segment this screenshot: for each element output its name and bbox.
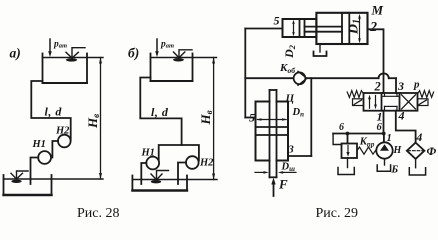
valve R right pilot box [418, 99, 429, 106]
pump H1 (fig b) [146, 157, 159, 170]
node 6 junction dot left [346, 132, 350, 136]
svg-text:Н2: Н2 [199, 158, 214, 169]
svg-text:Нв: Нв [198, 110, 214, 125]
svg-text:5: 5 [274, 14, 280, 28]
piston of small bore [300, 19, 305, 37]
drain tank symbol of cylinder M [314, 52, 327, 57]
svg-text:б): б) [128, 46, 139, 61]
valve R right spring [418, 91, 434, 98]
valve R left position arrows [368, 95, 377, 110]
tank symbol under filter [409, 168, 425, 175]
pump N [376, 142, 392, 158]
svg-text:3: 3 [287, 144, 294, 156]
drain of cylinder M [319, 44, 321, 52]
upper tank (fig b) [151, 54, 217, 82]
svg-text:2: 2 [374, 80, 381, 94]
wire valve port 1 down to node [383, 111, 385, 134]
wire Kob line from trunk to check valve [245, 77, 293, 79]
check valve Kob [294, 71, 307, 85]
piston of cylinder C [256, 127, 289, 135]
svg-text:М: М [371, 3, 384, 18]
valve R right position crossed arrows [402, 95, 416, 109]
relief valve Kpr connection [347, 134, 349, 144]
arrow F (force) [271, 178, 275, 196]
pump manifold (fig b) [159, 145, 199, 161]
pump H1 (fig a) [38, 151, 51, 164]
lower tank (fig a) [4, 175, 104, 195]
svg-text:Б: Б [391, 165, 399, 176]
svg-text:3: 3 [397, 79, 404, 93]
relief valve Kpr arrow [346, 146, 349, 157]
filter drain stub [415, 159, 417, 168]
wire pump suction [383, 134, 385, 143]
pipe H2 to H1 (fig a) [52, 141, 58, 158]
arrow D2 (bore small) [292, 20, 294, 37]
svg-text:Рис. 28: Рис. 28 [77, 206, 120, 219]
pipe upper tank to pump manifold (fig b) [140, 78, 181, 146]
arrow p_at (fig b) [155, 39, 159, 57]
wire Kob to valve port 3 with bridge over port-2 wire [305, 73, 396, 93]
svg-text:Н1: Н1 [32, 139, 46, 150]
wire port 3 of cylinder C [288, 155, 311, 157]
arrows Dsh (rod diameter) [255, 171, 296, 174]
svg-text:Нв: Нв [85, 114, 101, 129]
pump H2 (fig b) [186, 156, 199, 169]
upper tank (fig a) [43, 54, 104, 84]
valve R centre position symbol [382, 93, 399, 111]
rod of cylinder C [270, 90, 277, 177]
rod of cylinder M [305, 27, 343, 32]
svg-text:2: 2 [369, 19, 377, 34]
svg-text:рат: рат [160, 40, 174, 50]
piston of big bore [342, 13, 349, 44]
level/breather mark upper tank (fig a) [66, 48, 85, 62]
arrow D1 (bore big) [358, 14, 361, 43]
svg-text:Н: Н [393, 145, 403, 156]
wire right trunk (to cylinder C port 3) [310, 78, 312, 156]
svg-text:р: р [413, 79, 420, 91]
cylinder M big bore body [316, 13, 367, 44]
pipe upper tank to pump H2 (fig a) [31, 81, 70, 141]
level/breather mark upper tank (fig b) [173, 50, 192, 62]
svg-text:рат: рат [53, 40, 67, 50]
svg-text:l, d: l, d [45, 105, 63, 119]
svg-text:Н2: Н2 [55, 126, 70, 137]
svg-text:D2: D2 [282, 44, 297, 59]
wire valve port 4 to filter [396, 111, 416, 143]
suction pipe of H2 into lower tank (fig b) [178, 163, 186, 185]
svg-text:Коб: Коб [279, 62, 295, 75]
svg-text:4: 4 [398, 109, 405, 123]
wire node line 6 [333, 133, 384, 135]
relief valve Kpr body [342, 144, 358, 159]
svg-text:6: 6 [339, 122, 344, 133]
svg-text:Ф: Ф [427, 146, 437, 158]
valve R left pilot box [353, 99, 364, 106]
tank B under pump [377, 165, 390, 171]
svg-text:l, d: l, d [151, 105, 169, 119]
suction pipe into lower tank (fig a) [31, 158, 39, 185]
svg-text:6: 6 [377, 122, 383, 133]
dimension line Hv (fig a) [99, 58, 102, 180]
svg-text:F: F [278, 177, 288, 192]
arrow p_at (fig a) [48, 39, 52, 57]
cylinder M small bore body [283, 19, 317, 37]
filter F diamond [407, 143, 425, 159]
svg-text:а): а) [10, 46, 21, 61]
suction pipe of H1 into lower tank (fig b) [141, 163, 146, 184]
svg-text:Dп: Dп [292, 107, 305, 119]
wire left trunk [244, 29, 246, 118]
lower tank (fig b) [132, 176, 217, 191]
relief valve Kpr spring [357, 147, 376, 154]
drain of Kpr [347, 158, 349, 168]
arrow Dp (piston diameter) [256, 118, 287, 121]
dimension line Hv (fig b) [212, 58, 215, 180]
cylinder C body [256, 102, 289, 161]
level/breather mark lower tank (fig a) [11, 171, 28, 183]
svg-text:Dш: Dш [281, 162, 296, 174]
wire cylinder M port 2 to valve port 2 [368, 29, 384, 93]
pump suction stub [384, 159, 386, 165]
pump H2 (fig a) [58, 135, 71, 148]
valve R left spring [347, 91, 363, 98]
valve R body [364, 93, 418, 111]
level/breather mark lower tank (fig b) [151, 171, 169, 184]
svg-text:Кпр: Кпр [359, 137, 375, 149]
wire port 5 of cylinder C [245, 117, 255, 119]
tank symbol under Kpr [338, 168, 354, 175]
node junction dot pump [382, 132, 386, 136]
svg-text:4: 4 [416, 132, 423, 144]
relief valve Kpr pilot loop [333, 134, 341, 145]
svg-text:Рис. 29: Рис. 29 [316, 206, 359, 219]
svg-text:Н1: Н1 [141, 148, 155, 159]
wire inlet to cylinder M port 5 [245, 28, 282, 30]
svg-text:Ц: Ц [285, 93, 295, 105]
